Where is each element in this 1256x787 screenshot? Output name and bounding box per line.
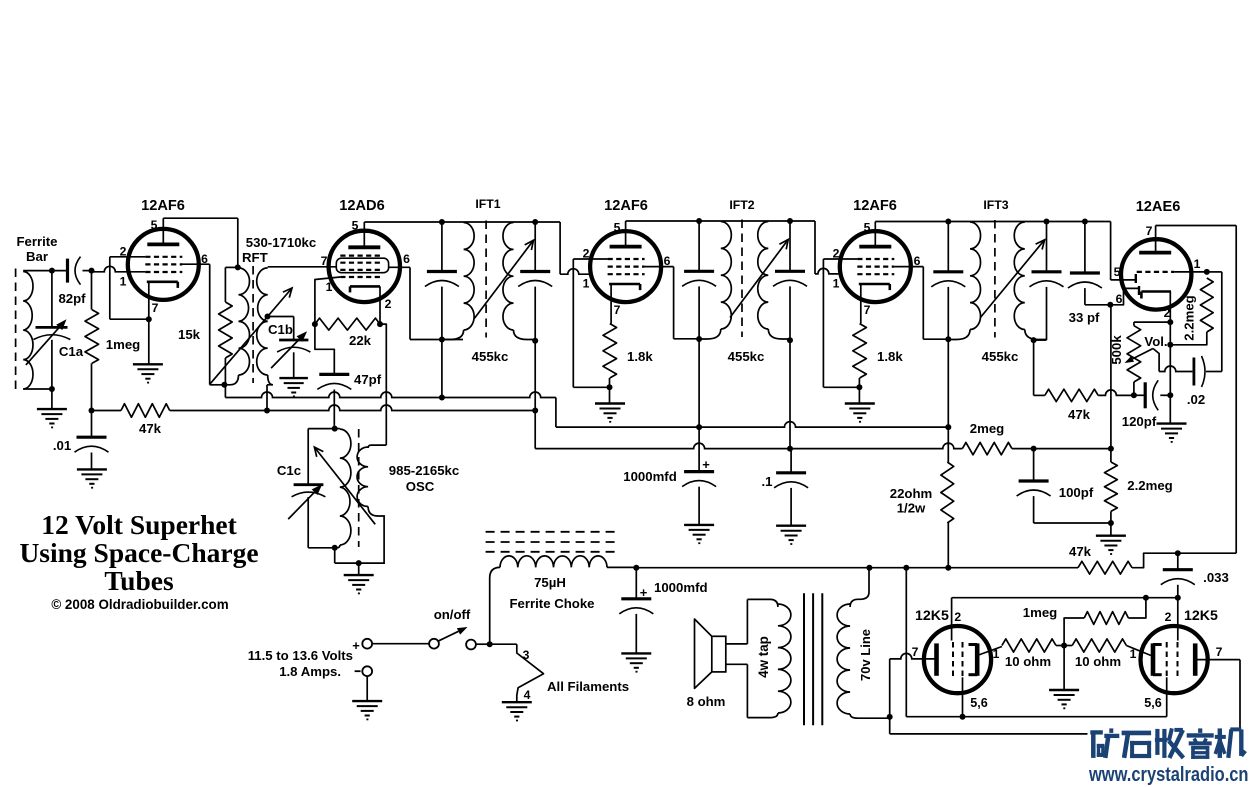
tube V2 12AD6: [329, 231, 400, 302]
wire osc bottom: [308, 547, 335, 549]
battery + terminal: [362, 639, 372, 649]
ground detector: [1110, 523, 1112, 535]
node IFT3 primary bottom: [945, 336, 951, 342]
svg-text:2: 2: [954, 610, 961, 624]
ground V4 cathode: [845, 402, 875, 404]
all-filaments zigzag symbol: [517, 644, 544, 701]
svg-text:70v Line: 70v Line: [858, 629, 873, 681]
ground V3 cathode: [595, 402, 625, 404]
osc feedback winding: [368, 445, 386, 448]
svg-text:2: 2: [385, 297, 392, 311]
wire V6 pin7 from transformer: [889, 659, 891, 734]
wire cathode to 500k top: [1134, 321, 1170, 323]
variable capacitor C1b: [279, 339, 308, 342]
IF transformer IFT2: [721, 222, 732, 330]
svg-text:1000mfd: 1000mfd: [623, 469, 677, 484]
RFT core (dashed): [252, 266, 254, 383]
V5 pin 7 plate lead: [1155, 226, 1157, 253]
V2 pin labels: [321, 219, 411, 312]
ground for .01: [77, 468, 107, 470]
node grid1 junction: [89, 268, 95, 274]
speaker 8 ohm: [712, 636, 726, 672]
V7 pins 5,6 cathode lead: [1166, 677, 1168, 716]
variable capacitor C1c: [307, 429, 309, 485]
svg-text:8 ohm: 8 ohm: [687, 694, 726, 709]
capacitor 82pf: [66, 259, 69, 283]
resistor 22k: [315, 318, 380, 330]
svg-text:12AD6: 12AD6: [339, 198, 384, 214]
svg-text:Tubes: Tubes: [104, 565, 174, 596]
svg-text:.02: .02: [1187, 392, 1205, 407]
capacitor IFT2 secondary: [789, 221, 791, 271]
V4 pin 2 wire and grid2 loop: [823, 258, 857, 260]
svg-text:455kc: 455kc: [728, 349, 765, 364]
wire IFT1 primary bottom to B- bus: [441, 340, 443, 398]
wire B+ top rail V2 to IFT1: [364, 221, 560, 223]
node 22k right: [377, 321, 383, 327]
resistor 47k output: [1078, 561, 1132, 574]
wire 2meg to detector: [1012, 448, 1111, 450]
V1 pin 5 lead and B+ wire: [162, 218, 164, 244]
node IFT1 primary bottom: [439, 337, 445, 343]
svg-text:Using Space-Charge: Using Space-Charge: [19, 537, 258, 568]
V7 pin 2 wire to grid line: [1177, 598, 1179, 641]
pot wiper arrow: [1133, 349, 1154, 359]
ground oscillator: [344, 574, 374, 576]
capacitor 100pf: [1033, 449, 1035, 481]
tube V1 12AF6: [128, 229, 199, 300]
svg-text:on/off: on/off: [434, 607, 471, 622]
svg-text:1: 1: [1194, 257, 1201, 271]
svg-text:15k: 15k: [178, 327, 201, 342]
tube V6 12K5: [924, 626, 991, 693]
node .033 top at plate line: [1175, 550, 1181, 556]
svg-text:Ferrite: Ferrite: [16, 234, 57, 249]
speaker wires: [726, 643, 748, 645]
V2 pin 6 plate wire to IFT1: [389, 266, 410, 268]
wire to filament tap 3: [490, 643, 517, 645]
wire B- bus jog down: [555, 398, 557, 428]
node IFT2 primary bottom: [696, 336, 702, 342]
osc primary winding: [340, 429, 351, 545]
wire IFT3 secondary bottom: [1034, 339, 1047, 341]
battery - terminal: [362, 666, 372, 676]
V4 pin 5 lead and B+ wire to IFT3: [874, 222, 876, 247]
V6 pin labels: [912, 610, 1000, 710]
IF transformer IFT1: [464, 223, 475, 331]
IFT3 tuning arrow: [980, 240, 1045, 318]
V1 pin labels 5 2 1 6 7: [120, 218, 209, 315]
potentiometer 500k volume: [1127, 326, 1141, 382]
svg-text:6: 6: [403, 252, 410, 266]
switch blade arrow on/off: [438, 631, 459, 641]
ground antenna: [37, 408, 67, 410]
switch pole contact: [429, 639, 439, 649]
ground 1000mfd 2: [621, 652, 651, 654]
svg-text:5,6: 5,6: [970, 696, 988, 710]
svg-text:47pf: 47pf: [354, 372, 382, 387]
wire antenna bottom: [23, 388, 52, 390]
svg-text:5: 5: [151, 218, 158, 232]
switch throw contact: [466, 640, 476, 650]
svg-text:3: 3: [523, 648, 530, 662]
node AVC end at 2.2meg: [1108, 446, 1114, 452]
svg-text:RFT: RFT: [242, 250, 268, 265]
V6 pins 5,6 cathode lead: [962, 677, 964, 716]
wire IFT2 secondary top to V4 grid: [814, 221, 816, 274]
tube V3 12AF6: [590, 231, 661, 302]
node V5 cathode mid junction: [1167, 342, 1173, 348]
node rail corner to cathode line: [903, 565, 909, 571]
node audio takeoff junction: [1108, 520, 1114, 526]
V2 pin 1 wire: [315, 277, 340, 324]
svg-text:1: 1: [120, 275, 127, 289]
svg-text:1.8k: 1.8k: [877, 349, 903, 364]
wire RFT secondary top to V2 pin7: [268, 266, 337, 268]
svg-text:47k: 47k: [139, 421, 162, 436]
node RFT primary top (B+): [235, 264, 241, 270]
svg-text:455kc: 455kc: [982, 349, 1019, 364]
watermark glyph ji: [1215, 728, 1246, 758]
svg-text:33 pf: 33 pf: [1069, 310, 1100, 325]
svg-text:2: 2: [1164, 306, 1171, 320]
svg-text:47k: 47k: [1068, 407, 1091, 422]
capacitor .1 AVC bypass: [790, 449, 792, 473]
svg-text:7: 7: [864, 303, 871, 317]
wire AVC bus y=410 to IFT1 secondary (hops 47pf and osc lines): [170, 405, 536, 410]
resistor 1meg coupling: [1064, 618, 1084, 646]
watermark glyph kuang: [1090, 728, 1119, 758]
wire B- bus from 15k bottom: [224, 385, 226, 398]
node antenna top junction: [49, 268, 55, 274]
ground battery: [352, 700, 382, 702]
svg-text:6: 6: [201, 252, 208, 266]
wire AVC bus y=448.6 (hops 1000mfd and 22ohm lines): [535, 443, 962, 449]
node V3 cathode junction: [607, 384, 613, 390]
svg-text:2.2meg: 2.2meg: [1127, 478, 1172, 493]
svg-text:12K5: 12K5: [1184, 608, 1218, 624]
svg-text:10 ohm: 10 ohm: [1075, 654, 1121, 669]
V7 pin 7 wire to plate line: [1195, 659, 1240, 661]
ground filaments: [502, 701, 532, 703]
ground 1000mfd: [684, 524, 714, 526]
svg-text:+: +: [352, 638, 360, 653]
node grid line at 1meg: [1143, 595, 1149, 601]
svg-text:2.2meg: 2.2meg: [1182, 295, 1197, 340]
node 33pf top: [1082, 219, 1088, 225]
wire cathode down to ground: [1169, 322, 1171, 395]
svg-text:6: 6: [664, 254, 671, 268]
wire osc top: [308, 428, 335, 430]
node V1 cathode junction: [146, 316, 152, 322]
svg-text:4w tap: 4w tap: [756, 636, 771, 678]
svg-text:C1a: C1a: [59, 344, 84, 359]
wire 22k left to 47pf: [315, 324, 334, 374]
wire 2.2meg det top: [1110, 395, 1112, 462]
V5 pin 2 cathode lead: [1169, 292, 1171, 323]
ground C1b: [279, 377, 308, 379]
svg-text:6: 6: [914, 254, 921, 268]
wire IFT1 secondary return to AVC bus: [534, 341, 536, 449]
transformer core lines: [804, 593, 822, 725]
svg-text:© 2008 Oldradiobuilder.com: © 2008 Oldradiobuilder.com: [51, 597, 228, 612]
svg-text:7: 7: [1146, 224, 1153, 238]
wire switch to choke junction: [476, 643, 490, 645]
capacitor .033: [1177, 553, 1179, 570]
capacitor 47pf: [319, 373, 349, 376]
svg-text:4: 4: [524, 688, 531, 702]
svg-text:IFT2: IFT2: [729, 198, 754, 212]
node 22k left: [312, 321, 318, 327]
svg-text:Ferrite Choke: Ferrite Choke: [509, 596, 594, 611]
svg-text:1: 1: [326, 280, 333, 294]
resistor 10 ohm right: [1072, 639, 1126, 652]
capacitor 1000mfd input filter: [635, 568, 637, 599]
ground V5 cathode: [1157, 422, 1187, 424]
wire choke to +12V rail: [607, 566, 636, 568]
node grid line at .033: [1175, 595, 1181, 601]
V3 pin 2 wire and grid2 loop: [573, 258, 607, 260]
ground .1: [776, 525, 806, 527]
ground V1 cathode: [133, 363, 163, 365]
svg-text:75µH: 75µH: [534, 575, 566, 590]
ferrite bar core (dashed): [15, 269, 17, 390]
capacitor .02: [1193, 358, 1196, 386]
svg-text:.1: .1: [762, 474, 773, 489]
resistor 15k: [224, 267, 226, 302]
node AVC at IFT2 secondary: [787, 446, 793, 452]
node IFT1 secondary bottom: [532, 338, 538, 344]
node B- at IFT1 primary return: [439, 395, 445, 401]
wire IFT3 secondary return to detector network: [1033, 340, 1035, 395]
svg-text:82pf: 82pf: [58, 291, 86, 306]
capacitor IFT3 secondary: [1046, 222, 1048, 272]
svg-text:2meg: 2meg: [970, 421, 1004, 436]
choke core dashes: [486, 532, 616, 552]
12K5 grid line: [952, 597, 1178, 599]
capacitor 120pf: [1134, 394, 1145, 396]
watermark glyph yin: [1187, 728, 1214, 759]
node B- at 1000mfd: [696, 424, 702, 430]
osc tuning arrow: [314, 447, 375, 524]
capacitor IFT2 primary: [698, 221, 700, 271]
svg-text:1meg: 1meg: [1023, 605, 1057, 620]
svg-text:7: 7: [1216, 645, 1223, 659]
node IFT2 primary top: [696, 218, 702, 224]
wire 33pf to V5 pin6: [1085, 304, 1110, 306]
node diode detector junction: [1107, 302, 1113, 308]
capacitor 1000mfd main filter: [684, 470, 714, 473]
svg-text:IFT3: IFT3: [983, 198, 1008, 212]
svg-text:10 ohm: 10 ohm: [1005, 654, 1051, 669]
resistor 47k AVC: [92, 410, 122, 412]
V1 pin 7 cathode lead: [148, 282, 150, 364]
V4 pin labels: [833, 221, 921, 318]
node 500k bottom junction: [1131, 392, 1137, 398]
wire to osc ground: [358, 563, 360, 574]
inductor 75uH ferrite choke: [500, 556, 607, 568]
tube V7 12K5: [1141, 626, 1208, 693]
capacitor IFT1 primary: [441, 222, 443, 272]
svg-text:1meg: 1meg: [106, 337, 140, 352]
svg-text:2: 2: [120, 245, 127, 259]
svg-text:12AF6: 12AF6: [853, 198, 897, 214]
svg-text:2: 2: [1165, 610, 1172, 624]
svg-text:120pf: 120pf: [1122, 414, 1157, 429]
node rail at output transformer: [866, 565, 872, 571]
node 10ohm junction: [1061, 643, 1067, 649]
svg-text:5,6: 5,6: [1144, 696, 1162, 710]
capacitor 33pf: [1084, 222, 1086, 274]
svg-text:7: 7: [912, 645, 919, 659]
svg-text:Vol.: Vol.: [1144, 334, 1167, 349]
node IFT3 primary top: [945, 219, 951, 225]
svg-text:500k: 500k: [1109, 335, 1124, 365]
node V6 cathode at line: [960, 714, 966, 720]
wire +12V corner down to cathode line: [905, 568, 907, 717]
wire top rail corner down to V5 pin5: [1110, 222, 1112, 280]
node AVC jog: [532, 408, 538, 414]
svg-text:455kc: 455kc: [472, 349, 509, 364]
wire grid node to V1 pin1 (hops over pin2 loop): [92, 266, 146, 272]
svg-text:Bar: Bar: [26, 249, 48, 264]
V2 pin 2 cathode lead to 22k: [379, 286, 381, 324]
svg-text:5: 5: [614, 221, 621, 235]
RFT primary winding: [239, 268, 250, 375]
node AVC at RFT secondary return: [264, 408, 270, 414]
V6 pin 2 wire to grid line: [951, 598, 953, 641]
svg-text:7: 7: [152, 301, 159, 315]
svg-text:C1b: C1b: [268, 322, 293, 337]
svg-text:+: +: [640, 585, 648, 600]
resistor 47k detector (to 500k bottom): [1034, 394, 1045, 396]
node 15k bottom / RFT primary return: [221, 382, 227, 388]
svg-text:+: +: [702, 457, 710, 472]
antenna coil L1: [23, 272, 33, 390]
V7 pin labels: [1130, 610, 1223, 710]
wire 82pf to grid node: [83, 270, 92, 272]
svg-text:1: 1: [1130, 647, 1137, 661]
wire tap to C1b: [268, 316, 294, 318]
node IFT1 primary top: [439, 219, 445, 225]
wire - terminal to ground: [366, 676, 368, 700]
wire 100pf to 2.2meg bottom: [1034, 522, 1111, 524]
node transformer secondary bottom: [887, 714, 893, 720]
svg-text:.01: .01: [53, 438, 71, 453]
V5 plate line down right side: [1235, 226, 1237, 554]
node switch output: [487, 641, 493, 647]
svg-text:11.5 to 13.6 Volts: 11.5 to 13.6 Volts: [248, 648, 353, 663]
node V5 grid: [1204, 269, 1210, 275]
V4 pin 6 plate wire to IFT3: [894, 266, 923, 268]
svg-text:1.8 Amps.: 1.8 Amps.: [279, 664, 341, 679]
node +12V at 1000mfd 2: [633, 565, 639, 571]
node rail at 22ohm: [945, 565, 951, 571]
watermark glyph shi: [1122, 733, 1152, 758]
RFT secondary winding: [257, 268, 268, 375]
node antenna bottom junction: [49, 386, 55, 392]
wiper wire to .02: [1153, 349, 1159, 372]
svg-text:100pf: 100pf: [1059, 485, 1094, 500]
resistor 2.2meg grid: [1200, 278, 1213, 332]
RFT tuning arrow: [210, 288, 292, 384]
svg-text:22ohm: 22ohm: [890, 486, 933, 501]
V1 pin 6 plate wire: [182, 263, 210, 265]
svg-text:5: 5: [352, 219, 359, 233]
wire RFT top to 15k: [225, 266, 237, 268]
resistor 1meg grid leak: [91, 271, 93, 310]
svg-text:1.8k: 1.8k: [627, 349, 653, 364]
svg-text:47k: 47k: [1069, 544, 1092, 559]
capacitor IFT1 secondary: [534, 222, 536, 272]
node detector load junction: [1031, 446, 1037, 452]
V1 pin 2 wire: [110, 256, 146, 258]
svg-text:5: 5: [864, 221, 871, 235]
V6 pin 1 wire: [977, 647, 1002, 656]
variable capacitor C1a: [51, 271, 53, 328]
capacitor IFT3 primary: [947, 222, 949, 272]
V2 pin 5 lead: [363, 222, 365, 247]
svg-text:12AF6: 12AF6: [141, 198, 185, 214]
V2 pin 2 wire down to oscillator: [380, 324, 386, 445]
ground 10ohm junction: [1049, 689, 1079, 691]
svg-text:6: 6: [1116, 292, 1123, 306]
wire IFT2 secondary return to AVC bus: [789, 340, 791, 448]
svg-text:22k: 22k: [349, 333, 372, 348]
svg-text:12K5: 12K5: [915, 608, 949, 624]
V3 pin 6 plate wire to IFT2: [645, 266, 674, 268]
IFT2 tuning arrow: [730, 240, 788, 318]
watermark glyph shou: [1155, 728, 1184, 758]
tube V4 12AF6: [840, 231, 911, 302]
node IFT1 secondary top: [532, 219, 538, 225]
svg-text:1: 1: [833, 277, 840, 291]
wire V5 grid to .02 corner: [1207, 271, 1222, 273]
capacitor .01: [91, 411, 93, 438]
IF transformer IFT3: [970, 222, 981, 330]
wire IFT1 secondary top to V3 grid (hops over V3 grid2 loop): [559, 222, 561, 274]
svg-text:985-2165kc: 985-2165kc: [389, 463, 459, 478]
svg-text:www.crystalradio.cn: www.crystalradio.cn: [1088, 764, 1248, 786]
node IFT3 secondary bottom junction: [1031, 337, 1037, 343]
wire detector node down: [1110, 305, 1112, 396]
svg-text:5: 5: [1114, 265, 1121, 279]
V3 pin 5 lead and B+ wire to IFT2: [625, 221, 627, 247]
wire bottom return line (cut by watermark): [890, 733, 1088, 735]
svg-text:12 Volt Superhet: 12 Volt Superhet: [41, 509, 237, 540]
svg-text:530-1710kc: 530-1710kc: [246, 235, 316, 250]
wire junction to ground: [1063, 646, 1065, 690]
V3 pin 7 lead and 1.8k resistor: [610, 284, 612, 324]
svg-text:7: 7: [321, 254, 328, 268]
svg-text:12AE6: 12AE6: [1136, 199, 1181, 215]
wire +12V rail: [636, 567, 1078, 569]
wire IFT2 primary bottom down to B- and 1000mfd: [698, 339, 700, 472]
svg-text:1: 1: [583, 277, 590, 291]
V1 grid2-cathode loop wire: [109, 257, 111, 319]
IFT1 tuning arrow: [474, 240, 533, 318]
svg-text:IFT1: IFT1: [475, 197, 500, 211]
resistor 22ohm: [941, 462, 954, 523]
output transformer secondary 70v line: [850, 568, 869, 607]
svg-text:All Filaments: All Filaments: [547, 679, 629, 694]
V5 pin labels: [1114, 224, 1201, 320]
node osc coil top: [332, 426, 338, 432]
wire IFT3 primary bottom to B- bus and 22ohm: [947, 339, 949, 462]
wire 47k jog up to plate line: [1132, 553, 1236, 568]
svg-text:OSC: OSC: [406, 479, 435, 494]
wire antenna top: [23, 270, 66, 272]
